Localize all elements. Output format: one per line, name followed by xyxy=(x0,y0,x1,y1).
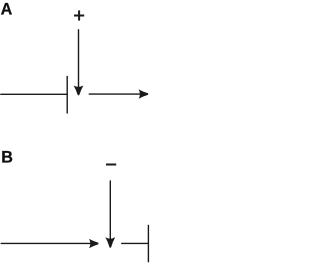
wire (left horizontal line A) xyxy=(1,93,67,95)
downward arrow A (head) xyxy=(74,86,84,96)
wall plate A xyxy=(66,76,68,114)
leftward long arrow B (shaft) xyxy=(1,242,91,244)
downward arrow B (shaft) xyxy=(109,181,111,241)
downward arrow A (shaft) xyxy=(78,30,80,89)
svg-text:A: A xyxy=(1,0,13,18)
wire (short horizontal line B) xyxy=(122,242,149,244)
plus sign (positive charge) xyxy=(74,10,84,20)
wall plate B xyxy=(147,225,149,262)
svg-text:B: B xyxy=(1,148,13,166)
downward arrow B (head) xyxy=(105,237,115,247)
rightward arrow A (shaft) xyxy=(89,93,141,95)
minus sign (negative charge) xyxy=(106,164,116,166)
rightward arrow A (head) xyxy=(139,89,149,98)
leftward long arrow B (head) xyxy=(89,239,98,248)
